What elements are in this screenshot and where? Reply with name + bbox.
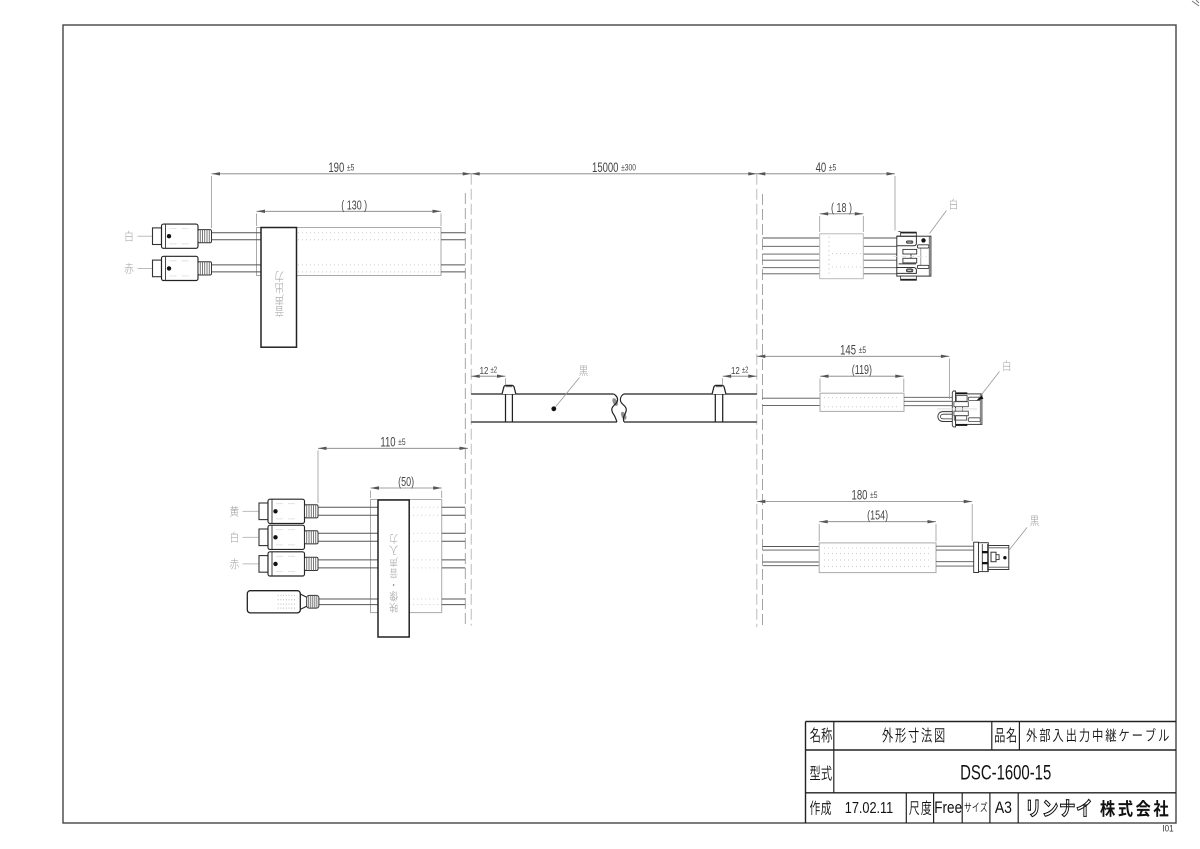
svg-text:(119): (119) bbox=[852, 364, 872, 378]
svg-text:( 18 ): ( 18 ) bbox=[831, 201, 852, 215]
svg-text:17.02.11: 17.02.11 bbox=[845, 800, 894, 817]
svg-text:(154): (154) bbox=[867, 509, 888, 523]
svg-text:A3: A3 bbox=[995, 799, 1012, 817]
svg-text:(50): (50) bbox=[398, 476, 414, 490]
svg-text:12 ±2: 12 ±2 bbox=[731, 365, 749, 376]
svg-text:I01: I01 bbox=[1162, 823, 1173, 834]
svg-text:12 ±2: 12 ±2 bbox=[480, 365, 498, 376]
svg-text:Free: Free bbox=[934, 799, 962, 818]
svg-text:DSC-1600-15: DSC-1600-15 bbox=[960, 760, 1051, 784]
svg-text:( 130 ): ( 130 ) bbox=[341, 199, 367, 213]
